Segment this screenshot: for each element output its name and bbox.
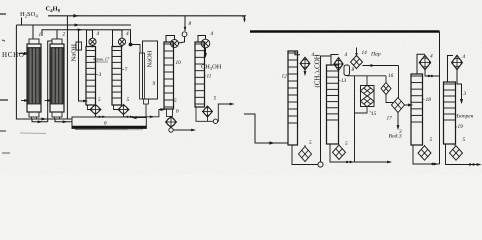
svg-text:4: 4 <box>463 54 466 60</box>
wire: riser into reactor 2 top <box>48 41 52 122</box>
column 9 scrubber <box>143 41 158 99</box>
wire: NaOH drop to column 3 <box>79 30 86 101</box>
reactor 1 <box>29 39 39 44</box>
wire: left feed downcomer <box>16 25 71 119</box>
exchanger 16 <box>385 76 387 83</box>
pump 6 under column 10 <box>169 128 173 132</box>
condenser 4 over column 13 <box>331 55 339 66</box>
svg-text:10: 10 <box>176 60 182 66</box>
column 12 <box>288 51 298 145</box>
wire: long downcomer from header end <box>439 32 441 165</box>
wire: riser from pump to column 13 <box>321 56 332 162</box>
svg-text:14: 14 <box>362 50 368 56</box>
column 3 <box>86 47 96 106</box>
svg-text:5: 5 <box>430 137 433 143</box>
svg-text:5: 5 <box>345 141 348 147</box>
svg-text:3: 3 <box>464 91 467 97</box>
wire: column 7 bottoms to column 10 <box>132 110 163 117</box>
wire: reflux from condenser 18 to downcomer <box>425 70 440 76</box>
wire: header C <box>42 29 132 31</box>
wire: header A end drop <box>242 16 244 18</box>
svg-text:8: 8 <box>189 21 192 27</box>
svg-text:3: 3 <box>399 129 402 135</box>
wire: 15 bottom to bottoms line <box>355 107 368 114</box>
drum 8 <box>344 65 350 76</box>
svg-text:Изопрен: Изопрен <box>454 114 474 120</box>
svg-text:8: 8 <box>352 67 355 73</box>
wire: header B <box>16 24 131 26</box>
svg-text:13: 13 <box>341 78 347 84</box>
reactor 2 <box>52 39 62 44</box>
condenser 4 over column 3 <box>87 30 93 47</box>
reboiler 5 under column 12 <box>292 145 318 165</box>
svg-text:16: 16 <box>388 73 394 79</box>
svg-text:HCHO: HCHO <box>2 51 25 59</box>
wire: line from 14 to cooler 17 drop <box>363 65 399 67</box>
wire: HCHO inlet arrow <box>19 53 27 55</box>
reboiler 5 under column 11 <box>203 106 213 117</box>
svg-text:5: 5 <box>127 97 130 103</box>
svg-text:4: 4 <box>430 54 433 60</box>
svg-text:5: 5 <box>463 137 466 143</box>
svg-text:9: 9 <box>153 81 156 87</box>
svg-text:3: 3 <box>98 72 102 78</box>
wire: feed line into column 12 <box>244 114 288 143</box>
svg-text:6: 6 <box>104 121 107 127</box>
exchanger 15 <box>366 76 368 86</box>
downcomer pipe into column 9 <box>140 53 145 99</box>
column 10 bottom stub <box>167 109 173 116</box>
column 13 <box>327 65 339 144</box>
condenser 4 over column 11 <box>198 36 206 43</box>
reboiler 5 under column 18 <box>413 145 440 164</box>
reboiler 5 under column 10 <box>166 117 177 128</box>
column 10 <box>164 42 174 109</box>
svg-text:4: 4 <box>345 52 348 58</box>
svg-text:7: 7 <box>125 67 128 73</box>
svg-text:1: 1 <box>39 32 42 38</box>
svg-text:12: 12 <box>282 74 288 80</box>
cooler 17 <box>398 66 400 98</box>
column 19 <box>444 82 456 144</box>
wire: right header (thick) <box>250 30 440 33</box>
svg-text:CH3OH: CH3OH <box>201 64 222 72</box>
svg-text:4: 4 <box>97 31 100 37</box>
wire: 17 drain to water <box>397 113 399 128</box>
svg-text:5: 5 <box>174 98 177 104</box>
pump under column 11 <box>213 119 217 123</box>
wire: reactor 1 bottoms to riser <box>32 120 48 122</box>
wire: drum 8 bottoms header <box>346 75 348 77</box>
wire: side inlet arrows to reactors <box>21 100 26 102</box>
svg-text:17: 17 <box>387 116 393 122</box>
wire: stem down to bottoms <box>354 76 356 162</box>
pump under column 12 <box>318 162 323 167</box>
reboiler 5 under column 7 <box>114 105 119 110</box>
wire: product riser x67 <box>66 16 68 119</box>
condenser 4 over column 18 <box>417 54 425 74</box>
svg-text:Пар: Пар <box>370 52 381 58</box>
svg-text:4: 4 <box>211 31 214 37</box>
column 7 <box>112 47 122 106</box>
wire: 16 outlet <box>386 95 393 103</box>
column 18 <box>411 74 423 145</box>
wire: header A (C4H6 line) <box>48 15 246 17</box>
svg-text:5: 5 <box>309 140 312 146</box>
svg-text:Фрак.17: Фрак.17 <box>93 57 110 62</box>
condenser 4 over column 7 <box>113 30 123 47</box>
svg-text:11: 11 <box>207 74 212 80</box>
svg-text:5: 5 <box>98 97 101 103</box>
svg-text:NaOH: NaOH <box>147 50 154 67</box>
column 9 bottom stub and drain <box>144 99 149 104</box>
heater 14 <box>351 56 363 69</box>
column 11 <box>195 42 205 107</box>
svg-text:18: 18 <box>426 97 432 103</box>
svg-text:15: 15 <box>371 111 377 117</box>
condenser 4 over column 10 <box>166 36 175 43</box>
reboiler 5 under column 13 <box>330 144 389 162</box>
reboiler 5 under column 3 <box>88 105 91 110</box>
wire: feed drop to scrubber 9 <box>130 30 132 45</box>
condenser 4 over column 19 <box>448 56 454 83</box>
wire: reactor 2 top feed <box>56 30 58 39</box>
collector tank 6 <box>72 117 146 127</box>
wire: 17 outlet to column 18 <box>405 104 411 106</box>
wire: isoprene product line <box>457 70 462 101</box>
svg-text:4: 4 <box>126 31 129 37</box>
wire: reactor 1 top feed <box>32 25 34 39</box>
condenser 4 over column 12 <box>295 51 300 55</box>
wire: H2SO4 drop <box>21 18 23 26</box>
wire: feed drop with valve over column 10 <box>184 16 186 31</box>
wire: reactor 2 bottoms to collector <box>55 120 72 122</box>
svg-text:6: 6 <box>176 109 179 115</box>
svg-text:5: 5 <box>214 96 217 102</box>
svg-text:2: 2 <box>63 32 66 38</box>
svg-text:19: 19 <box>458 124 464 130</box>
reboiler 5 under column 19 <box>446 144 479 165</box>
